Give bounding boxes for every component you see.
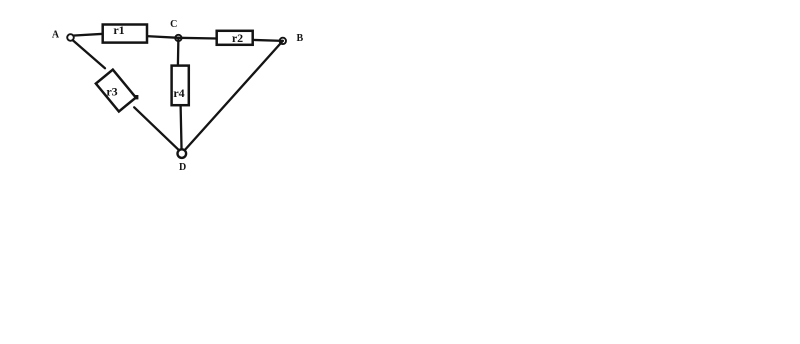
svg-text:B: B: [296, 33, 303, 44]
svg-text:r3: r3: [106, 85, 117, 99]
resistor R2: [217, 31, 253, 45]
svg-text:C: C: [170, 19, 177, 30]
wire B to D: [184, 41, 283, 151]
node D: [178, 149, 187, 158]
svg-text:D: D: [179, 162, 186, 173]
svg-text:r4: r4: [173, 86, 184, 100]
resistor R3: [96, 70, 139, 112]
wire r2 to B: [252, 40, 282, 41]
node A: [67, 34, 74, 41]
resistor R4: [172, 66, 189, 106]
svg-text:r1: r1: [113, 23, 124, 37]
resistor R1: [103, 23, 147, 43]
wire r4 to D: [181, 105, 182, 151]
svg-text:A: A: [52, 30, 60, 41]
wire A to r1: [73, 34, 104, 36]
wire C to r4: [177, 38, 180, 66]
wire A to r3: [73, 40, 105, 68]
wire r3 to D: [134, 107, 180, 151]
node C: [175, 35, 181, 41]
svg-text:r2: r2: [232, 31, 243, 45]
wire r1 to C: [147, 36, 179, 38]
wire C to r2: [178, 37, 217, 40]
node B: [280, 38, 286, 44]
